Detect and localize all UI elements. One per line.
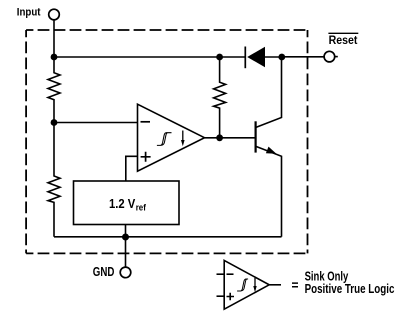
wire: comparator plus input to Vref box — [126, 156, 138, 181]
op-amp U1 triangle (comparator) — [138, 104, 205, 171]
svg-text:GND: GND — [93, 265, 115, 279]
svg-text:1.2 V: 1.2 V — [109, 196, 136, 211]
node: ground rail junction — [122, 234, 129, 241]
wire: comparator output to transistor base — [205, 137, 256, 139]
transistor Q1 collector — [256, 57, 282, 128]
transistor Q1 emitter arrow — [266, 147, 277, 154]
op-amp U1 down arrow — [182, 131, 184, 142]
svg-text:Reset: Reset — [329, 35, 358, 47]
IC boundary (dashed box) — [26, 30, 307, 253]
wire: junction to Reset terminal — [282, 56, 324, 58]
legend op-amp plus symbol — [227, 293, 235, 300]
transistor Q1 emitter — [256, 146, 282, 237]
node: diode/collector junction — [278, 54, 285, 61]
diode D1 cathode bar — [244, 47, 246, 69]
Reset label overline — [328, 32, 358, 34]
node: comparator output / R3 junction — [216, 134, 223, 141]
svg-text:ref: ref — [136, 203, 147, 214]
wire: divider tap to comparator inverting input — [54, 122, 138, 124]
legend op-amp hysteresis glyph — [237, 279, 248, 291]
resistor R2 (lower divider) — [48, 123, 60, 237]
node: input/top-rail junction — [51, 54, 58, 61]
resistor R3 (pull-up) — [214, 57, 226, 138]
Reset terminal circle — [324, 51, 335, 62]
wire: diode anode to collector junction — [265, 56, 282, 58]
Input terminal circle — [49, 9, 60, 20]
resistor R1 (upper divider) — [48, 57, 60, 123]
wire: Input terminal down to top rail — [53, 20, 55, 57]
equals sign — [292, 283, 298, 287]
voltage reference box — [74, 181, 180, 225]
op-amp U1 hysteresis glyph — [157, 133, 172, 146]
legend op-amp plus input stub — [217, 295, 225, 297]
wire: ground rail — [54, 236, 282, 238]
node: divider tap junction — [51, 119, 58, 126]
legend op-amp output stub — [269, 284, 281, 286]
svg-text:Positive True Logic: Positive True Logic — [305, 282, 395, 296]
wire: ground rail to GND terminal — [125, 237, 127, 267]
legend op-amp minus symbol — [227, 273, 234, 275]
transistor Q1 base bar — [255, 121, 257, 152]
wire: small stub right of Reset terminal — [335, 56, 338, 58]
legend op-amp minus input stub — [217, 273, 225, 275]
legend op-amp down arrow — [254, 278, 256, 287]
node: R3 top junction — [216, 54, 223, 61]
GND terminal circle — [120, 267, 131, 278]
legend op-amp triangle — [224, 260, 269, 309]
op-amp U1 minus symbol — [141, 121, 151, 123]
wire: top rail from input to diode cathode — [54, 56, 245, 58]
svg-text:Input: Input — [17, 6, 41, 18]
wire: Vref box to ground rail — [125, 225, 127, 237]
op-amp U1 plus symbol — [141, 152, 151, 162]
diode D1 triangle — [247, 47, 265, 67]
